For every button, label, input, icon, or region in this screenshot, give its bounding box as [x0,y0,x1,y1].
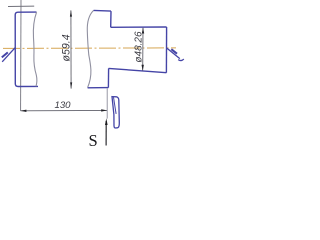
workpiece left section (in chuck) [15,12,38,86]
right extension line [106,88,108,118]
right section top edge [111,26,167,28]
svg-text:ø59.4: ø59.4 [61,34,73,61]
center support symbol right [167,48,180,58]
workpiece middle section top edge [94,9,111,12]
chuck datum horizontal line [8,5,34,7]
right section right edge [165,27,167,73]
feed arrow S [105,121,107,146]
break line 1 [33,12,37,86]
dimension line d59.4 [70,10,72,88]
dimension line d48.26 [142,28,144,71]
right section bottom edge [109,68,167,72]
cutting tool inner edge [114,97,117,114]
dimension line 130 [21,109,107,111]
clamp symbol left [2,48,15,62]
svg-text:ø48.26: ø48.26 [133,31,144,63]
step top vertical [110,11,112,27]
svg-text:S: S [89,131,98,150]
workpiece middle section bottom edge [88,87,109,89]
cutting tool [112,97,119,128]
break line 2 [87,10,93,87]
chuck datum vertical line / left extension line [20,0,22,111]
centerline (axis) [3,47,176,50]
step bottom vertical [107,68,109,87]
svg-text:130: 130 [55,100,72,111]
